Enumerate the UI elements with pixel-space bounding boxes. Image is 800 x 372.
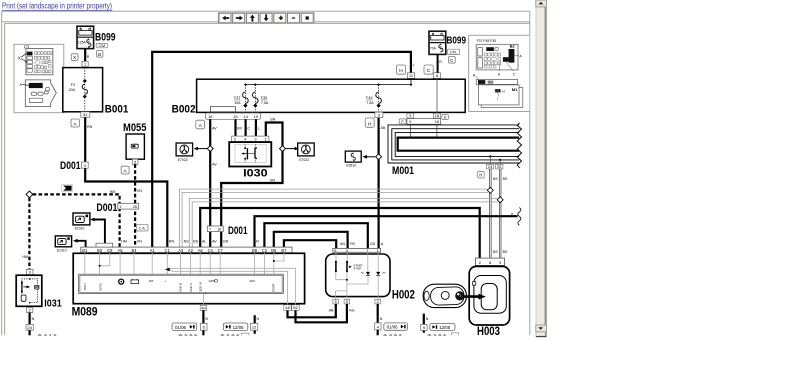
node 25 bbox=[496, 164, 503, 169]
splice tag 12/05 (right) bbox=[430, 324, 455, 331]
twisted-pair flag symbol bbox=[62, 185, 73, 192]
fuse F35 7,5A bbox=[254, 85, 256, 113]
svg-text:AB: AB bbox=[329, 309, 334, 313]
node 3 (D001) bbox=[81, 162, 88, 168]
svg-text:C: C bbox=[247, 126, 250, 130]
svg-text:16: 16 bbox=[208, 114, 213, 119]
connector letter C (right B099) bbox=[449, 56, 456, 63]
svg-text:A: A bbox=[19, 82, 22, 87]
svg-text:H: H bbox=[479, 173, 482, 178]
wire AB B002.3 to H002.1 bbox=[378, 118, 380, 249]
fuse unit E3510 bbox=[345, 151, 361, 162]
svg-text:I031: I031 bbox=[44, 298, 62, 310]
inline connector diamond AV bbox=[207, 146, 213, 152]
connector letter E bbox=[442, 115, 449, 120]
svg-text:1: 1 bbox=[119, 205, 121, 209]
svg-text:N: N bbox=[380, 317, 383, 321]
arrow key into H003 bbox=[463, 295, 479, 298]
node 9 bbox=[421, 324, 427, 330]
svg-text:B2: B2 bbox=[293, 306, 298, 310]
svg-text:18: 18 bbox=[435, 120, 439, 124]
wire M089.B6 to H002.4 bbox=[274, 232, 348, 249]
svg-text:SEG W: SEG W bbox=[198, 282, 202, 292]
svg-text:A5: A5 bbox=[118, 248, 124, 253]
svg-text:18: 18 bbox=[435, 114, 439, 118]
svg-text:15: 15 bbox=[233, 114, 238, 119]
svg-text:AVV: AVV bbox=[250, 279, 256, 283]
inline connector diamond HM bbox=[26, 191, 33, 198]
splice tag 01/06 bbox=[172, 323, 197, 331]
svg-text:BS: BS bbox=[193, 239, 198, 243]
wire AN M089.B7 to H002.6 bbox=[284, 240, 336, 248]
svg-text:F37: F37 bbox=[234, 96, 240, 100]
H002 bottom pins 5 5 2 bbox=[333, 299, 339, 304]
svg-text:H: H bbox=[368, 121, 372, 127]
wire HM dashed to M089 A5 bbox=[33, 194, 120, 247]
svg-text:B001: B001 bbox=[105, 103, 129, 115]
svg-text:M089: M089 bbox=[72, 305, 98, 319]
svg-text:15/54: 15/54 bbox=[83, 283, 87, 291]
svg-text:R: R bbox=[439, 60, 442, 64]
svg-text:F49: F49 bbox=[366, 96, 372, 100]
wire M089.C2 to H002.7 bbox=[264, 223, 367, 248]
svg-text:20A: 20A bbox=[69, 88, 76, 92]
svg-text:12: 12 bbox=[252, 325, 257, 330]
svg-text:H: H bbox=[399, 68, 403, 74]
svg-text:7: 7 bbox=[209, 227, 211, 231]
svg-text:AV: AV bbox=[212, 126, 217, 130]
svg-text:A3: A3 bbox=[178, 248, 184, 253]
svg-text:B002: B002 bbox=[172, 104, 196, 116]
svg-text:B1: B1 bbox=[82, 248, 88, 253]
svg-text:B8: B8 bbox=[252, 248, 258, 253]
svg-text:9: 9 bbox=[409, 120, 411, 124]
connector letter X bbox=[71, 54, 78, 61]
svg-text:01/06: 01/06 bbox=[387, 325, 399, 330]
svg-text:HM: HM bbox=[121, 239, 127, 243]
node 12 bbox=[250, 323, 257, 330]
svg-text:E1010: E1010 bbox=[75, 226, 85, 230]
svg-text:2: 2 bbox=[377, 300, 379, 304]
M089 inner unit box bbox=[79, 274, 284, 293]
pins 9/18 row2 bracket bbox=[407, 119, 441, 125]
svg-text:5: 5 bbox=[335, 300, 337, 304]
svg-text:M055: M055 bbox=[123, 122, 147, 134]
svg-text:E1010: E1010 bbox=[57, 248, 67, 252]
svg-text:C2: C2 bbox=[262, 248, 268, 253]
pin A4 bbox=[200, 306, 207, 311]
svg-text:C.A.: C.A. bbox=[139, 226, 146, 230]
inner icons bbox=[83, 279, 275, 293]
connector letter H (M001) bbox=[478, 171, 485, 178]
wire HM dashed to I031 bbox=[28, 198, 30, 270]
internal pin stubs bbox=[85, 253, 284, 306]
svg-text:14: 14 bbox=[243, 114, 248, 119]
svg-text:H003: H003 bbox=[477, 326, 500, 338]
svg-text:AN: AN bbox=[340, 242, 345, 246]
inline connector diamond AB bbox=[376, 154, 382, 160]
fuse F3 20A bbox=[84, 68, 86, 112]
svg-text:GN: GN bbox=[270, 178, 276, 182]
toolbar band bbox=[2, 11, 530, 335]
arrow wire from E1010 to M089 B3/C8 bracket bbox=[94, 220, 105, 244]
svg-text:26: 26 bbox=[133, 205, 137, 209]
relay I030 bbox=[229, 142, 271, 166]
svg-text:N: N bbox=[426, 317, 429, 321]
svg-text:B3: B3 bbox=[97, 248, 103, 253]
node 3 (B002) bbox=[375, 112, 383, 118]
svg-text:5: 5 bbox=[346, 300, 348, 304]
svg-text:A: A bbox=[381, 242, 384, 246]
wire R M089.B8 to break e bbox=[255, 216, 518, 247]
wire R from B099 right bbox=[437, 54, 439, 72]
earth point E1010 (lower) bbox=[55, 236, 71, 247]
splice tag 12/05 bbox=[223, 323, 248, 331]
M1 panel bbox=[481, 88, 523, 108]
svg-text:B7: B7 bbox=[281, 248, 287, 253]
svg-text:24: 24 bbox=[488, 165, 492, 169]
wire C B002.14 to I030.4 bbox=[245, 119, 247, 136]
fuse-box location inset (left) bbox=[14, 44, 64, 112]
node 24 (ground) bbox=[26, 324, 33, 330]
pins 9/18 row1 bbox=[407, 113, 414, 118]
node 4 bbox=[375, 323, 381, 330]
arrow to E7022 left bbox=[197, 148, 207, 150]
svg-text:C8: C8 bbox=[107, 248, 113, 253]
node 31 bbox=[81, 112, 90, 117]
svg-text:L: L bbox=[258, 126, 260, 130]
pin A8 bbox=[284, 305, 291, 311]
svg-text:9: 9 bbox=[409, 114, 411, 118]
start/stop unit H002 bbox=[326, 254, 390, 297]
indicator LEDs bbox=[366, 272, 370, 275]
svg-text:HM: HM bbox=[22, 255, 28, 259]
wire BV B002.15 to I030.2 bbox=[234, 119, 236, 136]
wires from 9/18 into M001 bbox=[409, 124, 411, 137]
svg-text:10A: 10A bbox=[234, 101, 241, 105]
arrow to E7022 right bbox=[286, 148, 295, 150]
svg-text:D001: D001 bbox=[60, 160, 81, 172]
switch unit I031 bbox=[26, 269, 33, 274]
battery B099 (right) bbox=[429, 31, 446, 54]
ground wire N from I031 bbox=[29, 313, 31, 325]
internal connector bracket (pins 16-15) bbox=[210, 107, 235, 112]
svg-text:01/06: 01/06 bbox=[175, 325, 187, 330]
start/stop unit H002 pin strip bbox=[333, 248, 381, 252]
wire AV B002.16 to M089 C4 bbox=[209, 119, 211, 247]
svg-text:GN: GN bbox=[223, 239, 229, 243]
inline connector diamonds NS BS bbox=[487, 187, 493, 193]
internal feed bus bbox=[245, 84, 411, 86]
svg-text:R: R bbox=[256, 239, 259, 243]
svg-text:BS: BS bbox=[503, 177, 508, 181]
svg-text:I: I bbox=[497, 97, 498, 101]
svg-text:E7022: E7022 bbox=[178, 158, 188, 162]
svg-text:B: B bbox=[98, 52, 101, 57]
svg-text:12/05: 12/05 bbox=[233, 325, 245, 330]
svg-text:19: 19 bbox=[254, 114, 259, 119]
battery B099 (left) bbox=[77, 26, 94, 48]
connector letter C bbox=[424, 65, 433, 74]
ground wire N from A4 bbox=[202, 310, 204, 323]
node 5 (M055) bbox=[132, 159, 138, 164]
node 11 bbox=[407, 73, 414, 79]
svg-text:L: L bbox=[413, 63, 415, 67]
svg-text:E3510: E3510 bbox=[346, 164, 356, 168]
internal link arrow to A8/B2 bbox=[167, 268, 296, 305]
svg-text:AV: AV bbox=[212, 163, 217, 167]
pin B2 bbox=[292, 305, 299, 311]
svg-text:Print (set landscape in printe: Print (set landscape in printer property… bbox=[2, 2, 112, 11]
svg-text:B6: B6 bbox=[271, 248, 277, 253]
C/M box bbox=[71, 43, 107, 60]
svg-text:C1: C1 bbox=[165, 248, 171, 253]
svg-text:F3: F3 bbox=[71, 83, 75, 87]
svg-text:A4: A4 bbox=[201, 306, 206, 310]
svg-text:RN: RN bbox=[87, 125, 93, 129]
connector letter H (B002 pin3) bbox=[365, 118, 374, 127]
fan motor E7022 (left) bbox=[176, 143, 193, 156]
fan motor E7022 (right) bbox=[298, 143, 315, 156]
svg-text:X: X bbox=[18, 55, 21, 60]
svg-text:INT/A: INT/A bbox=[98, 283, 102, 290]
wire B099 to node 1, R bbox=[84, 49, 86, 62]
junction dot bbox=[151, 180, 154, 183]
svg-text:D001: D001 bbox=[96, 202, 117, 214]
svg-text:C/M: C/M bbox=[99, 44, 106, 48]
connector letter H bbox=[396, 65, 405, 74]
wire RN down and right to junction bbox=[85, 168, 167, 247]
node 24 bbox=[487, 164, 494, 169]
key reader H003 pin strip bbox=[475, 258, 504, 265]
C.A. box bbox=[136, 224, 148, 231]
arrow wire from lower E1010 to M089 B1 bbox=[77, 241, 85, 247]
svg-text:X: X bbox=[73, 55, 76, 60]
svg-text:CB: CB bbox=[370, 242, 376, 246]
svg-text:STOP: STOP bbox=[353, 267, 361, 271]
svg-text:F37 F49 F35: F37 F49 F35 bbox=[477, 39, 497, 43]
svg-text:BV: BV bbox=[237, 126, 242, 130]
connector D001 1-26 bar bbox=[118, 203, 139, 209]
coil break zigzag bbox=[517, 123, 521, 168]
connector letter F bbox=[399, 119, 406, 124]
wire GN I030.1 to M089 C7 bbox=[221, 123, 282, 248]
node 6 bbox=[200, 323, 207, 330]
fuse panel F3 illustration bbox=[24, 44, 53, 74]
node 2 (I031) bbox=[27, 308, 33, 313]
node 1 bbox=[82, 61, 88, 66]
svg-text:H002: H002 bbox=[392, 289, 415, 301]
svg-text:N: N bbox=[205, 317, 208, 321]
wire RN B001 to D001 bbox=[84, 117, 86, 162]
svg-text:M1: M1 bbox=[512, 87, 518, 92]
svg-text:HM: HM bbox=[110, 190, 116, 194]
body control unit M089 pin strip bbox=[81, 247, 292, 253]
aerial M001 nested coil bbox=[388, 125, 519, 163]
svg-text:VN: VN bbox=[137, 189, 142, 193]
svg-text:e: e bbox=[511, 212, 513, 216]
svg-text:12/05: 12/05 bbox=[439, 325, 451, 330]
svg-text:+: + bbox=[164, 279, 166, 283]
arrow to E3510 bbox=[366, 156, 375, 158]
svg-text:N: N bbox=[257, 317, 260, 321]
svg-text:E7022: E7022 bbox=[299, 158, 309, 162]
svg-text:G010: G010 bbox=[36, 333, 57, 345]
svg-text:VN: VN bbox=[137, 239, 142, 243]
connector letter A (B001) bbox=[71, 119, 79, 127]
svg-text:GPS: GPS bbox=[209, 279, 215, 283]
svg-text:C: C bbox=[427, 68, 431, 74]
svg-text:AV: AV bbox=[212, 239, 217, 243]
svg-text:A2: A2 bbox=[188, 248, 194, 253]
svg-text:N: N bbox=[32, 317, 35, 321]
svg-text:A: A bbox=[436, 73, 439, 78]
svg-text:RV: RV bbox=[350, 242, 356, 246]
wire VN dashed M055 to M089 B4 bbox=[134, 164, 136, 247]
earth point E1010 (upper) bbox=[73, 213, 90, 225]
svg-text:7,5A: 7,5A bbox=[261, 101, 269, 105]
svg-text:NS: NS bbox=[493, 250, 499, 254]
inline connector diamond GN bbox=[280, 146, 286, 152]
svg-text:25: 25 bbox=[497, 165, 501, 169]
svg-text:F35: F35 bbox=[261, 96, 267, 100]
ground wire N from H002.2 bbox=[377, 304, 379, 323]
svg-text:INT: INT bbox=[149, 279, 154, 283]
wire AG H002.5 to M089.B2 bbox=[296, 304, 347, 322]
svg-text:16: 16 bbox=[217, 227, 221, 231]
body computer B002 bbox=[197, 79, 466, 112]
svg-text:D001: D001 bbox=[228, 225, 248, 237]
svg-text:I030: I030 bbox=[243, 167, 268, 179]
svg-text:G030: G030 bbox=[219, 333, 240, 345]
svg-text:G030: G030 bbox=[426, 333, 447, 345]
wire L B002.19 to I030.3 bbox=[255, 119, 257, 136]
svg-text:G030: G030 bbox=[177, 333, 198, 345]
svg-text:GN: GN bbox=[270, 118, 276, 122]
svg-text:24: 24 bbox=[27, 325, 32, 330]
key fob symbol bbox=[423, 284, 466, 307]
svg-text:B2: B2 bbox=[510, 43, 516, 48]
svg-text:G030: G030 bbox=[382, 333, 403, 345]
svg-text:B4: B4 bbox=[131, 248, 137, 253]
svg-text:70A: 70A bbox=[430, 46, 437, 50]
connector letter B bbox=[97, 50, 103, 57]
key reader H003 bbox=[469, 266, 509, 325]
switch contacts bbox=[335, 262, 337, 272]
wire from node A through box bbox=[436, 78, 438, 113]
svg-text:31: 31 bbox=[83, 112, 88, 117]
svg-text:AB: AB bbox=[381, 126, 386, 130]
svg-text:125A: 125A bbox=[78, 41, 87, 45]
svg-text:A1: A1 bbox=[150, 248, 156, 253]
svg-text:B099: B099 bbox=[447, 34, 467, 46]
B002 pin strip 16 15 14 19 bbox=[206, 113, 261, 119]
svg-text:A8: A8 bbox=[285, 306, 290, 310]
svg-text:R: R bbox=[87, 55, 90, 59]
ground wire N (12/05) bbox=[254, 315, 256, 334]
svg-text:M001: M001 bbox=[392, 165, 414, 177]
junction box B001 bbox=[63, 68, 103, 112]
svg-text:CHK A: CHK A bbox=[189, 283, 193, 292]
svg-text:B099: B099 bbox=[95, 32, 116, 44]
svg-text:NS: NS bbox=[493, 177, 499, 181]
location inset B2/M1 (top right) bbox=[469, 35, 531, 111]
svg-text:AL: AL bbox=[202, 239, 206, 243]
fuse F37 10A bbox=[244, 85, 246, 113]
lower panel illustration with A pointer bbox=[25, 80, 56, 107]
svg-text:RN: RN bbox=[169, 239, 175, 243]
taps to pins 24/25 bbox=[489, 155, 491, 157]
connector letter A (M055) bbox=[121, 166, 129, 174]
svg-text:7,5A: 7,5A bbox=[366, 101, 374, 105]
wire NS to H003 pin8 bbox=[490, 169, 502, 258]
svg-text:START: START bbox=[271, 283, 275, 292]
svg-text:NS: NS bbox=[184, 239, 190, 243]
node A bbox=[433, 73, 440, 79]
svg-text:CPL: CPL bbox=[450, 50, 457, 54]
wires NS BS thin labels mid bbox=[179, 189, 498, 247]
svg-text:BS: BS bbox=[503, 250, 508, 254]
svg-text:CHK B: CHK B bbox=[179, 283, 183, 292]
splice tag 01/06 bbox=[384, 323, 408, 330]
fuse F49 7,5A bbox=[378, 85, 380, 113]
CPL box bbox=[447, 49, 459, 54]
svg-text:C7: C7 bbox=[218, 248, 224, 253]
scrollbar bbox=[536, 0, 547, 337]
connector D001 7-16 bar bbox=[207, 226, 223, 232]
body control unit M089 bbox=[73, 253, 304, 303]
connector letter A (B002) bbox=[196, 120, 205, 129]
wire AL M089.A6 to H003.2 bbox=[200, 208, 480, 258]
svg-text:AG: AG bbox=[349, 309, 354, 313]
svg-text:C4: C4 bbox=[208, 248, 214, 253]
toolbar buttons bbox=[218, 13, 314, 24]
relay I030 connector strip pins 2 4 3 1 bbox=[232, 136, 269, 142]
ground wire N (right 12/05 splice) bbox=[423, 314, 425, 333]
wire AB H002.5 to M089.A8 bbox=[288, 304, 336, 317]
svg-text:A6: A6 bbox=[198, 248, 204, 253]
main feed wire to B002 and M089 A1 bbox=[152, 52, 411, 247]
